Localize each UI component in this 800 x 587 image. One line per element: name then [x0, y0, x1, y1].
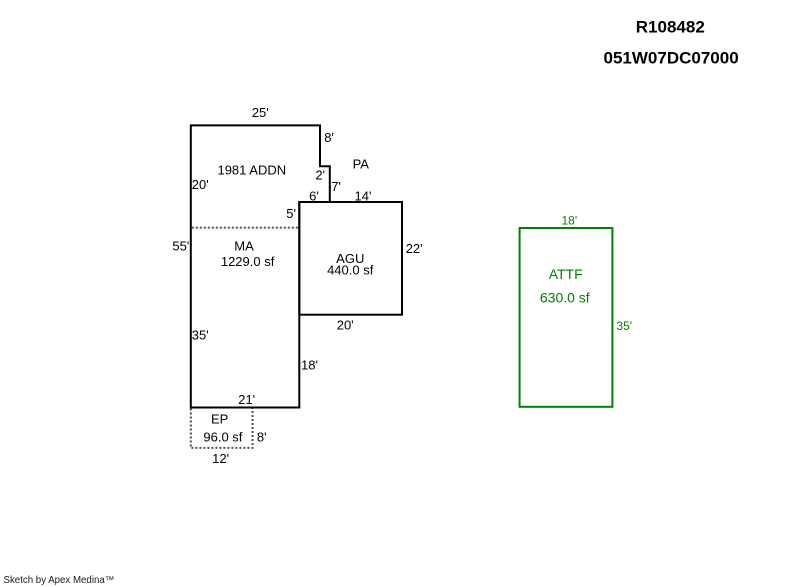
- svg-text:20': 20': [337, 318, 354, 333]
- svg-text:35': 35': [192, 328, 209, 343]
- svg-text:20': 20': [192, 177, 209, 192]
- svg-text:5': 5': [286, 206, 296, 221]
- svg-text:18': 18': [301, 358, 318, 373]
- EP dashed rectangle (porch): [191, 409, 253, 448]
- svg-text:2': 2': [315, 167, 325, 182]
- svg-text:1229.0 sf: 1229.0 sf: [221, 254, 275, 269]
- svg-text:051W07DC07000: 051W07DC07000: [604, 49, 739, 68]
- svg-text:630.0 sf: 630.0 sf: [540, 290, 590, 306]
- AGU rectangle (garage): [299, 202, 402, 315]
- dashed separator between 1981 ADDN and MA: [192, 227, 298, 229]
- svg-text:96.0 sf: 96.0 sf: [203, 429, 242, 444]
- svg-text:440.0 sf: 440.0 sf: [327, 263, 374, 278]
- svg-text:12': 12': [212, 451, 229, 466]
- svg-text:25': 25': [252, 105, 269, 120]
- svg-text:55': 55': [172, 239, 189, 254]
- main building outline (MA + 1981 ADDN): [191, 125, 330, 407]
- svg-text:35': 35': [616, 319, 632, 333]
- svg-text:6': 6': [309, 188, 319, 203]
- svg-text:PA: PA: [353, 157, 370, 172]
- svg-text:18': 18': [561, 214, 577, 228]
- svg-text:EP: EP: [211, 412, 228, 427]
- svg-text:ATTF: ATTF: [549, 266, 583, 282]
- svg-text:21': 21': [238, 392, 255, 407]
- svg-text:1981 ADDN: 1981 ADDN: [217, 162, 286, 177]
- svg-text:7': 7': [331, 179, 341, 194]
- svg-text:Sketch by Apex Medina™: Sketch by Apex Medina™: [4, 575, 115, 586]
- svg-text:8': 8': [324, 130, 334, 145]
- svg-text:MA: MA: [234, 239, 254, 254]
- svg-text:14': 14': [355, 188, 372, 203]
- svg-text:22': 22': [406, 241, 423, 256]
- svg-text:8': 8': [257, 429, 267, 444]
- ATTF green rectangle: [520, 228, 613, 407]
- svg-text:R108482: R108482: [636, 18, 705, 37]
